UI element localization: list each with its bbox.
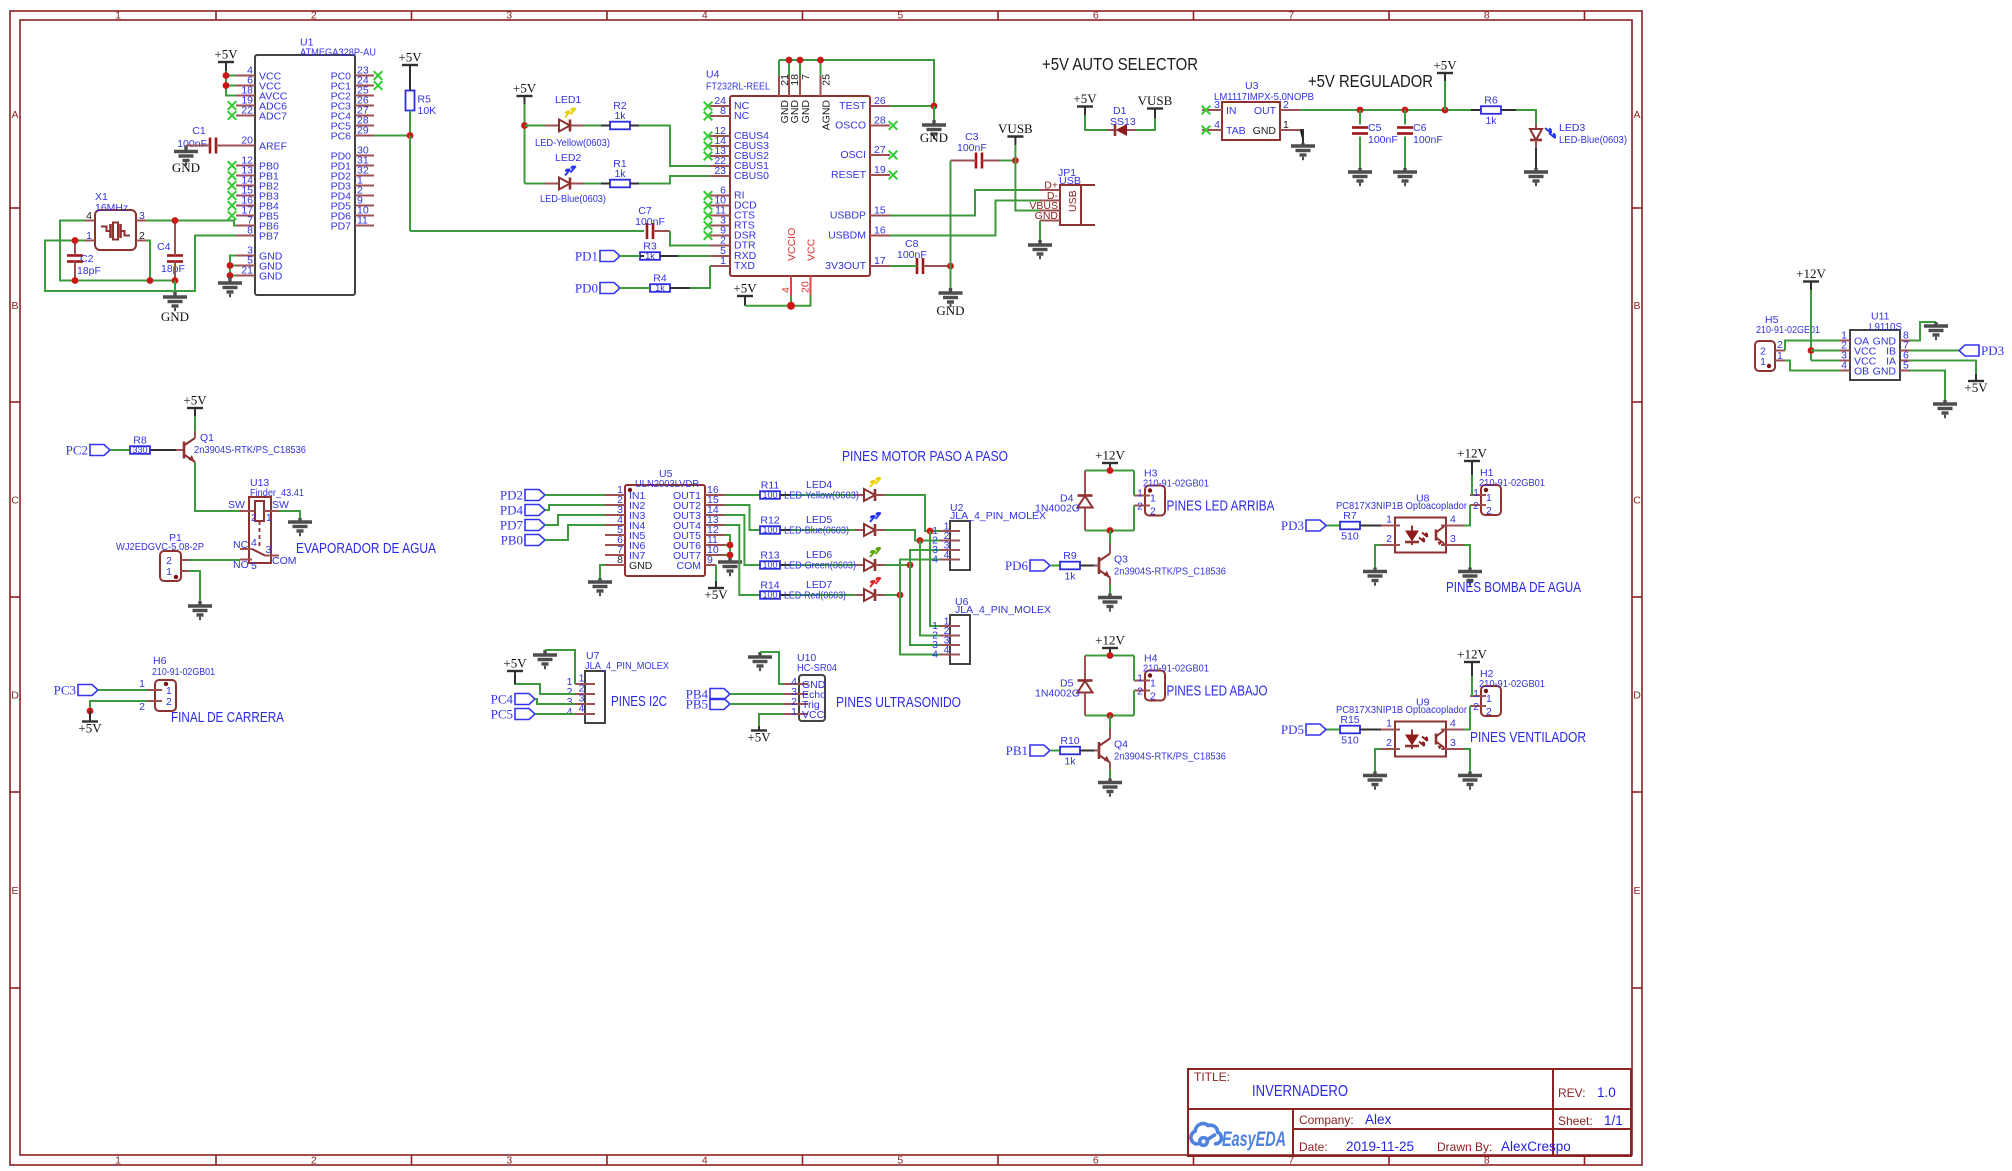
- wire P1 pin2 to NO: [189, 559, 240, 561]
- U9 internal led: [1405, 735, 1419, 746]
- power flag +12V above H4: [1102, 647, 1118, 649]
- svg-text:C: C: [1633, 495, 1641, 507]
- svg-text:2: 2: [1486, 706, 1492, 718]
- power flag +12V above H1: [1464, 460, 1480, 462]
- svg-text:PC3: PC3: [54, 683, 76, 698]
- U4 pin 28 OSCO: [870, 125, 890, 127]
- svg-text:USB: USB: [1059, 175, 1081, 187]
- power flag +5V above Q1: [187, 407, 203, 409]
- capacitor C6 100nF: [1404, 110, 1406, 125]
- U7 pin 3: [575, 703, 595, 705]
- svg-text:20: 20: [800, 281, 812, 293]
- power flag +5V below COM: [708, 587, 724, 589]
- svg-text:3: 3: [266, 544, 272, 556]
- svg-text:20: 20: [241, 135, 253, 147]
- U13 pin 4 NC: [240, 548, 252, 550]
- svg-text:1: 1: [166, 566, 172, 578]
- U4 pin 10 DCD: [710, 205, 730, 207]
- svg-text:26: 26: [874, 95, 886, 107]
- svg-text:2: 2: [1150, 506, 1156, 518]
- svg-text:4: 4: [579, 703, 585, 715]
- svg-text:1k: 1k: [655, 283, 665, 293]
- U8 internal led: [1405, 531, 1419, 542]
- svg-text:U4: U4: [706, 69, 720, 81]
- wire U9 pin2 to ground: [1375, 749, 1381, 772]
- svg-text:A: A: [1633, 109, 1640, 121]
- U4 bottom pins VCCIO VCC: [790, 276, 792, 296]
- U9 internal transistor: [1435, 734, 1438, 745]
- svg-text:GND: GND: [1035, 210, 1059, 222]
- U5 pin 10 OUT7: [705, 554, 725, 556]
- U1 pin 18 AVCC: [236, 95, 255, 97]
- wire U4 top GND rail: [779, 60, 934, 106]
- wire R1 to CBUS0: [639, 176, 710, 184]
- U8 pin 1: [1381, 525, 1400, 527]
- wire R6 to LED3: [1516, 110, 1536, 124]
- U8 pin 4: [1441, 525, 1464, 527]
- svg-text:+5V: +5V: [398, 50, 422, 65]
- U11 pin 7 IB: [1900, 350, 1910, 352]
- netflag PC4: [515, 694, 535, 705]
- svg-text:TITLE:: TITLE:: [1194, 1070, 1230, 1084]
- svg-text:PC6: PC6: [331, 131, 352, 143]
- svg-text:4: 4: [1214, 119, 1220, 131]
- svg-text:OSCI: OSCI: [840, 149, 866, 161]
- svg-text:Date:: Date:: [1299, 1140, 1328, 1154]
- P1 pin 2: [181, 559, 189, 561]
- ground right of U11 top: [1924, 322, 1948, 339]
- ground above U10: [748, 652, 772, 670]
- svg-text:LED2: LED2: [555, 152, 581, 164]
- svg-text:+12V: +12V: [1796, 266, 1826, 281]
- svg-text:WJ2EDGVC-5.08-2P: WJ2EDGVC-5.08-2P: [116, 541, 204, 553]
- svg-text:R6: R6: [1484, 95, 1498, 107]
- svg-text:INVERNADERO: INVERNADERO: [1252, 1083, 1348, 1100]
- wire TEST to GND rail: [890, 105, 934, 107]
- wire U5 GND to ground: [600, 565, 605, 578]
- U5 pin 5 IN5: [605, 534, 625, 536]
- connector H2 210-91-02GB01: [1481, 686, 1501, 716]
- U1 pin 9 PD5: [355, 205, 374, 207]
- svg-text:GND: GND: [920, 130, 948, 145]
- U4 pin 24 NC: [710, 105, 730, 107]
- power flag +5V above R5: [402, 64, 418, 66]
- svg-text:NC: NC: [233, 539, 249, 551]
- svg-text:1: 1: [791, 706, 797, 718]
- U10 pin 4 GND: [784, 683, 808, 685]
- svg-text:PINES VENTILADOR: PINES VENTILADOR: [1470, 730, 1586, 746]
- svg-text:1: 1: [720, 255, 726, 267]
- svg-text:+12V: +12V: [1095, 448, 1125, 463]
- U10 pin 2 Trig: [784, 703, 808, 705]
- svg-text:2: 2: [1150, 691, 1156, 703]
- wire +5V to U7 pin2: [515, 671, 575, 694]
- U5 pin 9 COM: [705, 564, 716, 566]
- power flag +5V left of U7: [507, 670, 523, 672]
- U9 pin 2: [1381, 748, 1400, 750]
- U4 pin 22 CBUS1: [710, 165, 730, 167]
- svg-text:ULN2003LVDR: ULN2003LVDR: [635, 478, 699, 490]
- svg-text:2: 2: [1473, 500, 1479, 512]
- U1 pin 24 PC1: [355, 85, 374, 87]
- svg-text:4: 4: [702, 1155, 708, 1167]
- svg-text:4: 4: [1841, 360, 1847, 372]
- svg-text:+5V: +5V: [704, 587, 728, 602]
- U6 pin 3: [940, 644, 960, 646]
- wire Q1 collector: [194, 408, 196, 416]
- U1 pin 3 GND: [236, 255, 255, 257]
- ground GND below C4: [163, 292, 187, 310]
- svg-text:1/1: 1/1: [1604, 1113, 1623, 1128]
- U1 pin 4 VCC: [236, 75, 255, 77]
- svg-text:22: 22: [241, 105, 253, 117]
- resistor R3 1k: [640, 252, 660, 260]
- svg-text:JLA_4_PIN_MOLEX: JLA_4_PIN_MOLEX: [950, 510, 1046, 522]
- netflag PD3 right: [1959, 345, 1979, 356]
- svg-text:27: 27: [874, 144, 886, 156]
- resistor R2 1k: [610, 122, 630, 130]
- U5 pin 7 IN7: [605, 554, 625, 556]
- U2 pin 1: [940, 530, 960, 532]
- ground GND at U3: [1291, 143, 1315, 159]
- svg-text:C5: C5: [1368, 122, 1382, 134]
- wire rail to Q3 collector: [1109, 531, 1111, 544]
- svg-text:GND: GND: [1873, 366, 1897, 378]
- svg-text:R7: R7: [1343, 510, 1357, 522]
- netflag PC5: [515, 709, 535, 720]
- svg-text:PD5: PD5: [1281, 722, 1304, 737]
- U9 pin 1: [1381, 729, 1400, 731]
- svg-text:1: 1: [1473, 487, 1479, 499]
- svg-text:4: 4: [251, 537, 257, 549]
- U4 pin 11 CTS: [710, 215, 730, 217]
- U11 pin 1 OA: [1840, 340, 1850, 342]
- ground GND below JP1: [1028, 240, 1052, 258]
- svg-text:LED-Yellow(0603): LED-Yellow(0603): [784, 490, 859, 502]
- EasyEDA logo: [1191, 1124, 1222, 1146]
- svg-text:5: 5: [1903, 360, 1909, 372]
- U1 pin 26 PC3: [355, 105, 374, 107]
- diode D5 1N4002G: [1084, 656, 1086, 681]
- svg-text:2: 2: [311, 10, 317, 22]
- svg-text:PD7: PD7: [500, 518, 524, 533]
- wire Q3 emitter to ground: [1109, 578, 1111, 585]
- svg-text:210-91-02GB01: 210-91-02GB01: [1479, 678, 1545, 690]
- svg-text:PD3: PD3: [1981, 343, 2004, 358]
- connector H5 210-91-02GE01: [1755, 341, 1775, 371]
- U4 pin 27 OSCI: [870, 154, 890, 156]
- wire LED6 to U2 pin3 and U6 pin3: [885, 564, 910, 566]
- resistor R8 330: [130, 446, 150, 454]
- X1 pin stubs: [85, 220, 95, 222]
- svg-text:4: 4: [780, 287, 792, 293]
- resistor R5 10K: [406, 91, 415, 111]
- svg-text:2: 2: [1386, 737, 1392, 749]
- U2 pin 2: [940, 540, 960, 542]
- svg-text:PINES LED ABAJO: PINES LED ABAJO: [1167, 684, 1268, 700]
- netflag PB0: [525, 535, 545, 546]
- ground below C5: [1348, 168, 1372, 185]
- U8 pin 3: [1441, 544, 1464, 546]
- U1 pin 20 AREF: [236, 145, 255, 147]
- svg-text:+5V REGULADOR: +5V REGULADOR: [1308, 71, 1433, 91]
- svg-text:D: D: [11, 690, 19, 702]
- svg-text:GND: GND: [172, 160, 200, 175]
- svg-text:1.0: 1.0: [1597, 1085, 1616, 1100]
- svg-text:Q3: Q3: [1114, 554, 1128, 566]
- U1 pin 31 PD1: [355, 165, 374, 167]
- svg-text:PB7: PB7: [259, 231, 279, 243]
- wire Q4 emitter to ground: [1109, 763, 1111, 770]
- connector U2 JLA_4_PIN_MOLEX: [950, 521, 970, 570]
- U4 pin 17 3V3OUT: [870, 265, 890, 267]
- svg-text:C2: C2: [80, 253, 94, 265]
- U5 pin 11 OUT6: [705, 544, 725, 546]
- netflag PB5: [710, 699, 730, 710]
- title block: [1188, 1069, 1631, 1156]
- U10 pin 3 Echo: [784, 693, 808, 695]
- led LED5 LED-Blue(0603): [781, 529, 791, 531]
- wires H3 to rails: [1133, 471, 1135, 496]
- svg-text:E: E: [11, 885, 18, 897]
- svg-text:REV:: REV:: [1558, 1086, 1586, 1100]
- svg-text:7: 7: [1288, 10, 1294, 22]
- svg-text:LED-Green(0603): LED-Green(0603): [784, 560, 856, 572]
- svg-text:11: 11: [357, 215, 368, 227]
- svg-text:TXD: TXD: [734, 260, 755, 272]
- svg-text:2: 2: [1386, 533, 1392, 545]
- connector H1 210-91-02GB01: [1481, 485, 1501, 515]
- svg-text:1: 1: [1150, 493, 1156, 505]
- U4 pin 16 USBDM: [870, 235, 890, 237]
- svg-text:USBDM: USBDM: [828, 230, 866, 242]
- U8 internal transistor: [1435, 530, 1438, 541]
- svg-text:Drawn By:: Drawn By:: [1437, 1140, 1492, 1154]
- svg-text:210-91-02GB01: 210-91-02GB01: [1143, 478, 1209, 490]
- wire +12V rails at H3: [1085, 470, 1134, 472]
- svg-text:8: 8: [1484, 10, 1490, 22]
- svg-text:B: B: [1633, 300, 1640, 312]
- svg-text:OUT: OUT: [1254, 105, 1277, 117]
- U4 pin 2 DTR: [710, 245, 730, 247]
- svg-text:2: 2: [1137, 686, 1143, 698]
- svg-text:Alex: Alex: [1365, 1112, 1392, 1127]
- svg-text:2: 2: [1137, 501, 1143, 513]
- svg-text:100nF: 100nF: [957, 142, 987, 154]
- svg-text:4: 4: [702, 10, 708, 22]
- wire OUT5-7 tie to ground: [725, 535, 730, 558]
- svg-text:1: 1: [1473, 688, 1479, 700]
- svg-text:+5V: +5V: [1433, 58, 1457, 73]
- U5 pin 6 IN6: [605, 544, 625, 546]
- U5 pin 15 OUT2: [705, 504, 725, 506]
- svg-text:NC: NC: [734, 110, 750, 122]
- ground below U5 GND: [588, 578, 612, 595]
- svg-text:1: 1: [1486, 492, 1492, 504]
- svg-text:16MHz: 16MHz: [95, 202, 128, 214]
- power flag +12V above H3: [1102, 462, 1118, 464]
- U1 pin 25 PC2: [355, 95, 374, 97]
- resistor R9 1k: [1060, 562, 1080, 570]
- U1 pin 12 PB0: [236, 165, 255, 167]
- svg-text:1k: 1k: [645, 251, 655, 261]
- ground right of U13: [288, 518, 312, 535]
- U13 coil pin 1 SW: [264, 510, 279, 512]
- diode D1 SS13: [1107, 129, 1115, 131]
- U3 pin 3 IN: [1202, 109, 1222, 111]
- U1 pin 13 PB1: [236, 175, 255, 177]
- U4 pin 14 CBUS3: [710, 145, 730, 147]
- resistor R13 100: [750, 564, 760, 566]
- resistor R4 1k: [650, 284, 670, 292]
- U7 pin 2: [575, 693, 595, 695]
- wire USBDP to D+: [890, 190, 1040, 216]
- H4 pin 1: [1134, 680, 1150, 682]
- svg-text:6: 6: [1093, 10, 1099, 22]
- svg-text:VCC: VCC: [806, 238, 818, 261]
- H4 pin 2: [1134, 690, 1150, 692]
- svg-text:2: 2: [1486, 505, 1492, 517]
- wire P1 pin1 to ground: [189, 571, 200, 601]
- svg-text:2: 2: [311, 1155, 317, 1167]
- led LED6 LED-Green(0603): [781, 564, 791, 566]
- U5 pin 8 GND: [605, 564, 625, 566]
- U4 pin 3 RTS: [710, 225, 730, 227]
- svg-text:1: 1: [1486, 693, 1492, 705]
- svg-text:2019-11-25: 2019-11-25: [1346, 1139, 1414, 1154]
- svg-text:+5V: +5V: [733, 281, 757, 296]
- svg-text:+12V: +12V: [1457, 446, 1487, 461]
- wire C4 bottom to ground: [174, 281, 176, 293]
- wire C3 right to VUSB: [1000, 160, 1015, 162]
- svg-text:C1: C1: [192, 125, 206, 137]
- svg-text:100: 100: [763, 560, 778, 570]
- resistor R12 100: [750, 529, 760, 531]
- svg-text:GND: GND: [800, 100, 812, 124]
- power flag +5V below U4: [737, 295, 753, 297]
- svg-text:3: 3: [506, 1155, 512, 1167]
- wire U11 IA to +5V: [1910, 361, 1976, 375]
- svg-text:PD6: PD6: [1005, 558, 1029, 573]
- svg-text:AREF: AREF: [259, 141, 287, 153]
- svg-text:1: 1: [1283, 119, 1289, 131]
- wire U8 pin3 to ground: [1464, 545, 1470, 568]
- wire SW1 to ground: [279, 511, 300, 518]
- led LED3 LED-Blue vertical: [1535, 124, 1537, 129]
- svg-text:8: 8: [617, 554, 623, 566]
- resistor R15 510: [1340, 726, 1360, 734]
- svg-text:LED-Red(0603): LED-Red(0603): [784, 590, 846, 602]
- mcu U1 ATMEGA328P-AU: [255, 55, 355, 295]
- svg-text:100nF: 100nF: [177, 138, 207, 150]
- wire H5 pin2 to OA: [1785, 341, 1840, 351]
- wire ground to U7 pin1: [545, 650, 575, 684]
- no-connect X marks U1: [374, 71, 383, 80]
- svg-text:100nF: 100nF: [897, 249, 927, 261]
- wire H5 pin1 to OB: [1785, 361, 1840, 371]
- svg-text:PC5: PC5: [491, 707, 513, 722]
- svg-text:E: E: [1633, 885, 1640, 897]
- U1 pin 11 PD7: [355, 225, 374, 227]
- U1 pin 6 VCC: [236, 85, 255, 87]
- ground below LED3: [1524, 168, 1548, 185]
- P1 pin 1: [181, 570, 189, 572]
- U13 dashed link: [259, 521, 261, 547]
- svg-text:TAB: TAB: [1226, 125, 1246, 137]
- svg-text:100nF: 100nF: [635, 216, 665, 228]
- svg-text:1N4002G: 1N4002G: [1035, 503, 1080, 515]
- svg-text:CBUS0: CBUS0: [734, 170, 769, 182]
- svg-text:1k: 1k: [614, 110, 626, 122]
- netflag PB1: [1030, 745, 1050, 756]
- U1 pin 29 PC6: [355, 135, 374, 137]
- svg-text:21: 21: [241, 265, 253, 277]
- svg-text:PD2: PD2: [500, 488, 523, 503]
- svg-text:OSCO: OSCO: [835, 120, 866, 132]
- svg-text:PB1: PB1: [1006, 743, 1028, 758]
- svg-text:VUSB: VUSB: [1138, 93, 1173, 108]
- connector H4 210-91-02GB01: [1145, 671, 1165, 701]
- H5 pin 2: [1775, 350, 1785, 352]
- svg-text:100: 100: [763, 490, 778, 500]
- svg-text:PINES LED ARRIBA: PINES LED ARRIBA: [1167, 499, 1275, 515]
- power flag VUSB right of D1: [1147, 107, 1163, 109]
- wire OUT3 jog to R13: [725, 515, 755, 565]
- svg-text:R10: R10: [1060, 735, 1079, 747]
- svg-text:1: 1: [1137, 673, 1143, 685]
- wire ground to U10 GND: [760, 652, 784, 684]
- U4 pin 13 CBUS2: [710, 155, 730, 157]
- wire crystal pin4 loop: [60, 221, 175, 281]
- svg-text:+12V: +12V: [1095, 633, 1125, 648]
- svg-text:1: 1: [115, 10, 121, 22]
- U4 pin 1 TXD: [710, 265, 730, 267]
- svg-text:+12V: +12V: [1457, 647, 1487, 662]
- U9 pin 4: [1441, 729, 1464, 731]
- ground below C6: [1393, 168, 1417, 185]
- resistor R10 1k: [1060, 747, 1080, 755]
- svg-text:PINES ULTRASONIDO: PINES ULTRASONIDO: [836, 695, 961, 711]
- wire U9 pin4 to H2 pin2: [1464, 706, 1470, 730]
- svg-text:GND: GND: [629, 560, 653, 572]
- U4 pin 19 RESET: [870, 174, 890, 176]
- ground below Q3: [1098, 594, 1122, 611]
- svg-text:17: 17: [874, 255, 886, 267]
- svg-text:3: 3: [1450, 737, 1456, 749]
- svg-text:2: 2: [139, 701, 145, 713]
- svg-text:1k: 1k: [1485, 115, 1497, 127]
- svg-text:4: 4: [567, 706, 573, 718]
- svg-text:8: 8: [720, 105, 726, 117]
- svg-text:LED-Blue(0603): LED-Blue(0603): [784, 525, 849, 537]
- svg-text:L9110S: L9110S: [1869, 321, 1902, 333]
- svg-text:1: 1: [1150, 678, 1156, 690]
- wire crystal pin1 to PB7 loop: [45, 236, 236, 292]
- U4 pin 15 USBDP: [870, 215, 890, 217]
- U1 pin 15 PB3: [236, 195, 255, 197]
- connector U6 JLA_4_PIN_MOLEX: [950, 615, 970, 664]
- U1 pin 1 PD3: [355, 185, 374, 187]
- connector P1 WJ2EDGVC-5.08-2P: [160, 551, 181, 581]
- U3 pin 4 TAB: [1202, 129, 1222, 131]
- power flag +5V below H6: [82, 720, 98, 722]
- svg-text:R9: R9: [1063, 550, 1077, 562]
- regulator U3 LM1117IMPX-5.0NOPB: [1222, 102, 1280, 140]
- svg-text:GND: GND: [1253, 125, 1277, 137]
- wire +5V to VCC pins: [225, 62, 227, 71]
- svg-text:PD7: PD7: [331, 221, 352, 233]
- svg-text:4: 4: [932, 649, 938, 661]
